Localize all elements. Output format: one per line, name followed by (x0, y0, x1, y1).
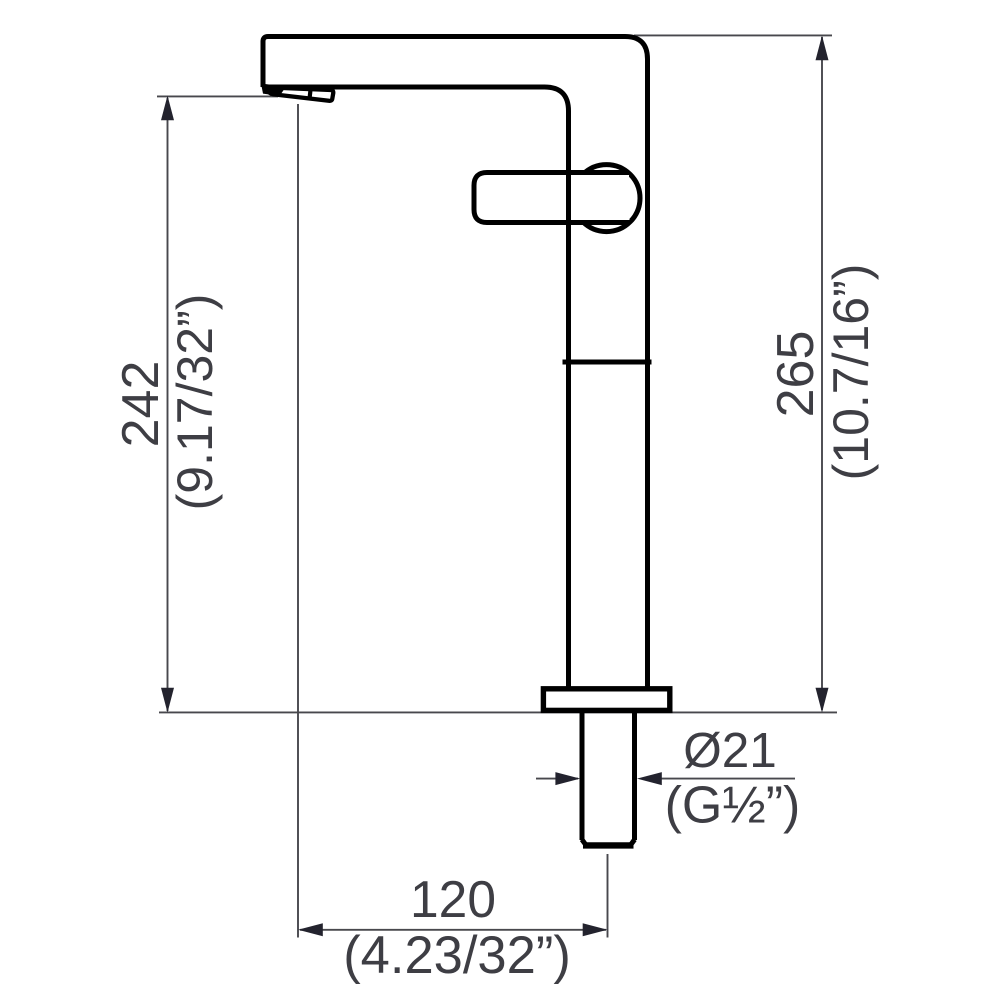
svg-text:(9.17/32”): (9.17/32”) (167, 294, 223, 511)
base flange (543, 689, 669, 711)
242 dimension line (167, 98, 169, 711)
svg-text:(4.23/32”): (4.23/32”) (343, 926, 571, 985)
arrowheads (161, 36, 829, 937)
242 down arrow (161, 688, 174, 713)
265 top extension line (634, 34, 832, 36)
svg-text:120: 120 (410, 870, 496, 928)
120 left extension line (below spout) (297, 104, 299, 938)
threaded inlet pipe (582, 713, 635, 840)
120 dimension line (300, 929, 606, 931)
265 down arrow (816, 688, 829, 713)
svg-text:Ø21: Ø21 (683, 723, 777, 778)
Dia21 left-pointing arrow (637, 772, 662, 785)
handle lever (474, 173, 630, 223)
body divider seam (563, 360, 652, 365)
242 top extension line (spout outlet level) (157, 95, 278, 97)
265 dimension line (821, 37, 823, 710)
pipe bottom edge with chamfers (583, 842, 634, 848)
counter / mounting surface line (159, 711, 837, 713)
265 up arrow (816, 36, 829, 61)
faucet body outline (263, 37, 648, 690)
handle pivot circle (573, 165, 640, 232)
aerator divider line (309, 89, 310, 100)
Dia21 right-pointing arrow (555, 772, 580, 785)
120 right extension line (pipe centerline) (607, 854, 609, 938)
242 up arrow (161, 96, 174, 121)
spout aerator tip (268, 87, 333, 101)
svg-text:242: 242 (112, 361, 170, 448)
120 right arrow (583, 923, 608, 936)
thin dimension/extension lines (157, 35, 837, 937)
svg-text:(10.7/16”): (10.7/16”) (823, 264, 879, 481)
Dia21 left leader (536, 778, 578, 780)
Dia21 right leader (659, 778, 795, 780)
svg-text:265: 265 (767, 331, 825, 418)
svg-text:(G½”): (G½”) (665, 777, 801, 835)
120 left arrow (298, 923, 323, 936)
spout corner blob (261, 84, 286, 97)
